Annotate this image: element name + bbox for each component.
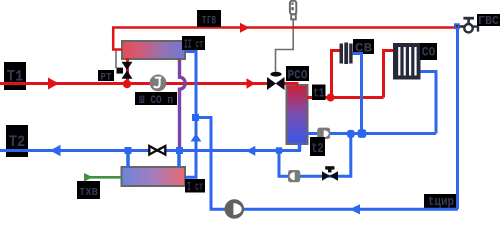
gray sensor line to РСО valve: [276, 20, 294, 72]
label box ШСОп: [135, 92, 177, 107]
svg-text:СО: СО: [422, 46, 436, 60]
label box II ст: [182, 36, 205, 52]
label box РСО: [286, 66, 309, 83]
pipe red РСО valve to tank: [284, 84, 297, 87]
label box ГВС: [477, 14, 500, 28]
arrow blue up on DHW riser: [191, 133, 202, 141]
svg-text:t2: t2: [312, 142, 324, 157]
svg-text:тгв: тгв: [202, 14, 217, 29]
pipe blue HX2 out to HX1 riser: [185, 52, 196, 178]
valve РСО with actuator: [267, 72, 285, 90]
pump/sensor on bottom loop: [288, 170, 300, 182]
valve РТ with thermal actuator: [117, 62, 133, 79]
label box СО: [420, 43, 437, 60]
arrow blue left on circulation bottom: [350, 204, 361, 214]
junction blue node bottom loop tee: [347, 130, 355, 138]
svg-text:ГВС: ГВС: [478, 14, 499, 28]
radiator СО: [393, 43, 421, 80]
junction blue node HX2 left: [125, 147, 132, 154]
pump on circulation line: [225, 199, 245, 219]
pump ШСОп on Т1 main: [150, 75, 167, 92]
pipe red riser to тгв line: [113, 28, 122, 50]
label box тхв: [77, 181, 100, 199]
arrow blue left mid Т2 main: [246, 146, 255, 156]
outdoor/flow temperature sensor (top): [290, 1, 296, 20]
junction blue node tank bottom: [276, 147, 282, 153]
svg-text:РСО: РСО: [288, 69, 308, 83]
pipe red riser to СО: [384, 51, 394, 98]
pipe blue return main Т2: [0, 149, 301, 152]
arrow blue left on Т2 main: [50, 145, 61, 156]
pipe green cold water тхв: [84, 176, 122, 179]
junction blue node circulation tee: [192, 114, 199, 121]
gray capillary line to РТ valve: [115, 51, 117, 69]
pipe blue radiator return y=133: [308, 132, 437, 135]
label box Т2 (return): [6, 125, 28, 157]
junction blue node HX2 right / purple: [176, 147, 183, 154]
svg-text:тхв: тхв: [79, 184, 98, 199]
pipe blue ГВС right riser: [456, 26, 459, 209]
label box tцир: [424, 194, 458, 209]
svg-text:РТ: РТ: [101, 71, 112, 83]
valve on Т2 main (outline bowtie): [149, 146, 165, 155]
junction blue node ГВС corner: [454, 23, 460, 29]
svg-text:tцир: tцир: [428, 194, 454, 209]
label box СВ: [353, 39, 374, 56]
label box t2: [310, 137, 325, 157]
pipe blue СО return riser: [421, 72, 437, 134]
svg-text:t1: t1: [313, 86, 324, 101]
heat exchanger I stage: [122, 167, 186, 186]
pipe blue tank bottom stub: [298, 144, 302, 152]
pipe red tank to junction t1: [307, 96, 384, 99]
pipe red HX1 to РТ valve stub: [126, 58, 129, 84]
label box t1: [312, 85, 326, 101]
junction red dot at РТ valve: [123, 80, 131, 88]
arrow green тхв: [84, 173, 93, 182]
pipe purple HX1 outlet drop with hop: [180, 59, 186, 151]
radiator СВ: [340, 43, 353, 65]
svg-text:Т2: Т2: [9, 133, 26, 151]
junction blue node СВ return tee: [358, 129, 367, 138]
pipe blue HX2 right stub: [177, 150, 181, 168]
svg-text:Ш СО п: Ш СО п: [139, 95, 173, 107]
pipe red supply main Т1: [0, 82, 267, 85]
pipe blue СВ return riser: [353, 54, 362, 134]
faucet ГВС: [460, 18, 479, 32]
svg-text:I ст: I ст: [187, 181, 203, 194]
label box РТ: [98, 70, 114, 83]
arrow red on тгв line: [240, 23, 250, 33]
pipe red тгв top line: [112, 26, 456, 29]
pipe blue circulation branch: [196, 118, 458, 210]
label box I ст: [185, 179, 205, 194]
valve on circulation loop with T-handle: [322, 166, 338, 181]
tank/boiler column: [287, 85, 308, 144]
junction red dot t1: [327, 94, 335, 102]
label box тгв: [197, 10, 221, 29]
pipe blue HX2 left stub: [126, 150, 130, 168]
pipe blue bottom loop with valve: [279, 134, 351, 177]
svg-text:II ст: II ст: [184, 38, 203, 52]
sensor t2 on tank outlet: [317, 128, 330, 139]
heat exchanger II stage: [122, 41, 185, 59]
pipe red riser to СВ: [332, 51, 340, 97]
arrow red on Т1 main: [48, 78, 59, 90]
arrow red before РСО: [247, 78, 256, 88]
label box Т1 (supply): [4, 62, 26, 90]
